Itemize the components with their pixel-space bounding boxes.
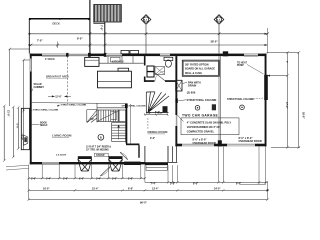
door opening garage-house [175,115,177,126]
svg-text:12'-8": 12'-8" [20,134,23,141]
shower pan [155,67,165,75]
overhead door opening 1 [182,144,214,147]
dining east wall stubs [168,146,177,162]
fireplace chase [21,108,29,149]
svg-text:5'-4": 5'-4" [46,178,51,181]
window living bottom wall [42,162,59,164]
svg-text:2'-8": 2'-8" [128,178,133,181]
deck stair rail left [89,0,91,54]
svg-text:38'-0": 38'-0" [211,39,219,43]
beam line over open area [32,103,128,104]
svg-text:3/8" RATED OPTION: 3/8" RATED OPTION [185,63,209,66]
deck sliding door gap in top wall [69,54,89,57]
right dim line 2 [298,53,300,148]
washer pan with drain [176,80,182,91]
garage wall note box [182,60,219,76]
upper dimension line 2 [29,44,267,46]
deck stair hatch [95,5,121,22]
left upper dim line [10,49,30,106]
stoop label box [95,153,109,157]
dim row A right [145,181,268,183]
svg-text:BOARD ON ALL GARAGE: BOARD ON ALL GARAGE [185,68,215,71]
svg-text:WALL & CLNG: WALL & CLNG [185,72,202,75]
deck outline [29,18,90,20]
left dim line 2 [12,107,14,157]
bay window 1 [78,156,92,171]
stair landing line [97,103,126,122]
svg-text:36'-8": 36'-8" [302,112,305,119]
bath bottom wall right part [165,80,175,82]
pantry fridge nook blocks [147,66,154,71]
structural post stair wall top [125,104,128,108]
ceiling break dashed line [67,56,69,104]
svg-text:3'-0": 3'-0" [112,178,117,181]
kitchen island [98,71,132,88]
stair width dim line [145,114,169,116]
bath door leaf [156,73,166,81]
svg-text:TO HEAT: TO HEAT [237,61,247,64]
window garage in top wall [244,54,258,57]
svg-text:STRUCTURAL COLUMN: STRUCTURAL COLUMN [187,98,217,102]
svg-text:8'-0": 8'-0" [193,183,198,186]
window bath in top wall [160,54,170,57]
island top bump [118,68,129,71]
left dim line outer [3,106,5,161]
dim row A left [29,177,145,179]
svg-text:STOOP: STOOP [96,154,105,157]
svg-text:4" CONCRETE SLAB ON 6 MIL POLY: 4" CONCRETE SLAB ON 6 MIL POLY [187,121,232,125]
svg-text:B: B [100,135,102,139]
vertical ext row C left [29,178,268,199]
garage slab note box [181,118,239,135]
overhead door opening 2 [227,144,255,147]
right exterior wall garage [265,54,267,147]
dim ticks upper [30,33,269,47]
svg-text:13'-4": 13'-4" [152,188,159,191]
svg-text:7'-4": 7'-4" [151,183,156,186]
front door sill dark [124,162,141,165]
svg-text:7'-0": 7'-0" [100,25,104,31]
grid cut marker [212,104,216,110]
heat pump line [267,75,288,77]
marker 2 drop line [218,25,220,54]
window breakfast in top wall [42,54,66,57]
svg-text:5'-0": 5'-0" [146,112,151,115]
extension lines below wall [29,147,266,185]
kitchen right wall lower [144,77,146,82]
svg-text:DINING ROOM: DINING ROOM [148,130,169,134]
firebox [23,135,27,145]
refrigerator [85,57,99,66]
dining bay side walls [145,146,168,162]
svg-text:7'-0": 7'-0" [37,39,43,43]
svg-text:12 R AT 7 3/4" RISER &: 12 R AT 7 3/4" RISER & [86,146,111,149]
closet wall vertical [138,145,139,158]
svg-text:STRUCTURAL COLUMN: STRUCTURAL COLUMN [227,98,254,101]
garage left wall [175,56,177,146]
window kitchen in top wall [106,54,122,57]
stair lower run treads [112,125,126,138]
toilet [164,57,173,60]
svg-text:6'-8": 6'-8" [128,188,133,191]
svg-text:3'-0": 3'-0" [31,178,36,181]
svg-text:15'-4": 15'-4" [92,188,99,191]
bath bottom wall left part [145,80,155,82]
svg-text:31'-0": 31'-0" [6,110,9,117]
heat pump / structural post on right wall [264,75,268,100]
top exterior wall [30,54,267,57]
svg-text:5'-4": 5'-4" [96,178,101,181]
dining center dashed [147,118,149,130]
right ladder bottom connector [271,146,300,148]
svg-text:6'-8": 6'-8" [15,124,18,129]
svg-text:OVERHEAD DOOR: OVERHEAD DOOR [239,139,262,143]
svg-text:17'-4": 17'-4" [285,102,288,109]
bottom wall living room [30,162,145,164]
svg-text:2'-8": 2'-8" [170,183,175,186]
svg-text:PUMP: PUMP [237,65,244,67]
hall edge line [129,104,131,144]
svg-text:LIVING ROOM: LIVING ROOM [52,134,72,138]
svg-text:SHELF: SHELF [40,125,48,127]
section marker diamond 1 [141,15,151,25]
svg-text:10" TRD. W/ NOSING: 10" TRD. W/ NOSING [86,150,109,152]
window left wall breakfast [30,59,32,72]
svg-text:STRUCTURAL COLUMN: STRUCTURAL COLUMN [61,104,87,107]
arrow dots at deck corner [28,33,30,35]
front door swing [100,167,110,176]
stair upper run treads [99,110,119,122]
right ladder top connector [267,52,299,54]
svg-text:UP: UP [91,119,95,121]
left dim line 3 fireplace [17,108,19,149]
stair rail diagonal [97,111,119,122]
svg-text:SOLAR: SOLAR [34,83,42,86]
svg-text:9'-0": 9'-0" [150,137,155,140]
svg-text:3'-0": 3'-0" [63,178,68,181]
dim row B [29,189,268,191]
dining slider sill [145,162,168,165]
post in wall at marker 2 [223,51,228,56]
stair mid landing [119,110,126,122]
winder dark tread [163,106,168,112]
closet door swing [120,152,128,159]
deck stair rail right [104,22,106,53]
svg-text:12'-6": 12'-6" [55,95,62,98]
porch steps [146,165,167,170]
wall cabinets above top wall [121,51,129,54]
left dim line 4 [24,60,30,111]
right dim line 1 [286,53,288,148]
upper dimension line 1 [29,33,267,35]
svg-text:COMPACTED GRAVEL: COMPACTED GRAVEL [187,130,215,134]
svg-text:DECK: DECK [53,22,60,26]
svg-text:TWO CAR GARAGE: TWO CAR GARAGE [182,113,218,117]
marker 1 drop line [145,25,147,54]
right lower partial dim [240,183,266,185]
stair direction arrow [118,126,120,140]
svg-text:96'-0": 96'-0" [140,201,148,204]
svg-text:5-4 SDGW: 5-4 SDGW [56,154,66,157]
circled column marker A2 [240,105,245,110]
svg-text:CHIMNEY: CHIMNEY [34,87,45,89]
section marker diamond 2 [214,15,224,25]
svg-text:DRAIN: DRAIN [188,84,196,88]
svg-text:OVERHEAD DOOR: OVERHEAD DOOR [193,141,216,145]
svg-text:8'-0": 8'-0" [77,37,83,41]
svg-text:STRUCTURAL COLUMN: STRUCTURAL COLUMN [122,104,146,107]
basement stair winder fan [146,92,169,113]
left exterior wall [30,54,32,165]
stair winder treads left [87,110,97,123]
garage bottom wall [175,144,266,147]
svg-text:8'-0": 8'-0" [236,183,241,186]
dim row C overall [29,199,268,201]
circled column marker A1 [195,106,200,111]
svg-text:(2) 6X6: (2) 6X6 [187,90,196,94]
svg-text:16'-0": 16'-0" [43,188,50,191]
svg-text:STRUCTURAL COLUMN: STRUCTURAL COLUMN [33,109,59,112]
kitchen right wall upper [144,56,146,65]
svg-text:VAPOR BARRIER ON 4" OF: VAPOR BARRIER ON 4" OF [187,125,221,129]
svg-text:8' SDGW: 8' SDGW [45,59,55,61]
closet wall horizontal [126,144,139,146]
svg-text:6'-0": 6'-0" [79,178,84,181]
svg-text:BOOK: BOOK [40,122,47,124]
structural post garage wall [175,98,177,103]
svg-text:5'-0": 5'-0" [158,112,163,115]
garage center post [218,140,222,146]
garage center grid line [219,56,221,144]
svg-text:24'-0": 24'-0" [214,188,221,191]
svg-text:KITCHEN: KITCHEN [112,59,124,63]
bay window 2 [109,156,123,171]
bottom-left leader lines [6,165,29,170]
kitchen counter front edge [99,56,144,63]
stair right wall [126,108,128,144]
circled marker stairs [98,134,104,140]
kitchen sink [111,57,121,62]
svg-text:BREAKFAST AREA: BREAKFAST AREA [46,76,69,79]
